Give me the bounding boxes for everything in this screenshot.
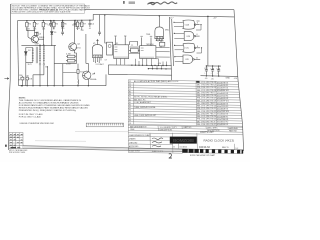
svg-text:4.7M: 4.7M [66, 53, 71, 55]
node: scale checker bar [182, 149, 243, 154]
svg-text:94310-62: 94310-62 [199, 145, 211, 149]
vacuum tube V2 [155, 16, 164, 42]
IC U1 [114, 36, 129, 65]
wire: mid rail lower y74.4 [108, 73, 171, 76]
svg-text:TUBE, DISPLAY DIGITAL: TUBE, DISPLAY DIGITAL [134, 106, 156, 109]
svg-text:1 KEY, ALARM SET: 1 KEY, ALARM SET [134, 101, 152, 104]
capacitor C22 [217, 66, 220, 76]
svg-text:DS1: DS1 [25, 75, 29, 77]
node: component value labels [19, 17, 238, 81]
node: parts list table [128, 80, 242, 153]
svg-text:2N711: 2N711 [76, 48, 81, 50]
IC U2 [140, 36, 156, 65]
svg-text:AS COMPLETE ACTION THAT (MELD): AS COMPLETE ACTION THAT (MELD) ASSY LOCK [134, 80, 179, 83]
node: measuring ruler strip [86, 123, 123, 127]
svg-text:LINE CORD W/PLUG 6FT: LINE CORD W/PLUG 6FT [134, 115, 157, 117]
wire: Q1 collector to node [28, 30, 36, 39]
node: signature scribbles [152, 138, 163, 147]
node: handwritten note smudge top [148, 2, 178, 5]
wire: left frame border [9, 4, 11, 150]
svg-text:C9: C9 [105, 60, 107, 62]
node: revision table bottom-left [9, 133, 23, 149]
resistor R8 [66, 55, 76, 58]
wire: horizontal rail y45.3 [21, 44, 56, 46]
svg-text:PART NO: PART NO [229, 129, 237, 132]
node: junction dots bottom bus [21, 22, 220, 87]
crystal Y1 [129, 47, 140, 52]
wire: bottom bus [19, 85, 106, 87]
wire: riser from bottom bus [105, 74, 107, 85]
svg-text:REL 1786 1PR 77B 27: REL 1786 1PR 77B 27 [197, 124, 216, 126]
capacitor C19 [160, 40, 165, 47]
svg-text:TMS: TMS [146, 34, 151, 36]
wire: IC interlink lower [129, 53, 140, 55]
node: drawing title text [204, 139, 235, 143]
svg-text:GND: GND [226, 77, 231, 79]
relay K1 [107, 42, 113, 55]
svg-text:220: 220 [61, 28, 64, 30]
wire: vertical x47.7 [47, 66, 49, 86]
wire: upper top rail [85, 9, 235, 11]
node: text under checker bar [190, 154, 215, 157]
node: V2 pin dots [156, 40, 162, 41]
gate G4 [175, 55, 200, 64]
svg-text:PART NO: PART NO [184, 126, 192, 129]
svg-text:2N404: 2N404 [39, 37, 44, 39]
capacitor C1 [49, 21, 52, 27]
wire: rail y68.6 [148, 68, 171, 70]
resistor R3 [42, 21, 44, 31]
wire: mid rail left riser [107, 65, 109, 75]
node: text above tick strip [20, 123, 54, 125]
node: junction dots top bus [26, 14, 209, 46]
wire: bypass top rail [206, 65, 221, 67]
svg-text:BOMZOBI: BOMZOBI [173, 138, 195, 144]
wire: sub rail linking R1 R2 [27, 29, 35, 31]
wire: Q3 emitter to bus [87, 80, 89, 86]
wire: mid vertical x54 [53, 45, 55, 85]
svg-text:CHECKED: CHECKED [129, 142, 138, 144]
capacitor C2 [74, 20, 77, 27]
node: T1 top link [40, 44, 44, 47]
wire: faint fold line A [75, 131, 128, 133]
svg-text:C19: C19 [160, 41, 163, 43]
node: title block approval table [128, 133, 243, 153]
wire: faint fold line B [35, 140, 86, 142]
wire: V1 pin drops [94, 61, 99, 64]
svg-text:PRESENTED IN EQ. FREQUENCY RAT: PRESENTED IN EQ. FREQUENCY RATING R 75-8… [19, 109, 77, 112]
resistor R9 [66, 59, 76, 62]
wire: rail y63.6 [54, 63, 76, 65]
gate G2 [174, 32, 199, 41]
resistor R6 [76, 20, 78, 30]
wire: Q2 collector up [73, 20, 75, 42]
transistor Q2 [69, 43, 77, 51]
transistor Q3 [83, 71, 91, 80]
wire: U1 side link [105, 15, 107, 43]
svg-text:DRAWN: DRAWN [129, 138, 136, 141]
node: gate output dots [200, 24, 202, 48]
wire: lower top rail (+5V feed) [93, 14, 234, 17]
node: header ink blob [196, 81, 199, 83]
svg-text:ITEM: ITEM [130, 129, 135, 131]
node: revision table entries [10, 134, 23, 148]
wire: IC pin drops row [136, 59, 167, 66]
capacitor C5 [61, 31, 64, 35]
node A [94, 72, 96, 75]
wire: mid rail upper y65 [108, 64, 171, 67]
svg-text:PARTS LIST: PARTS LIST [200, 131, 214, 134]
svg-text:TMS3450: TMS3450 [146, 44, 154, 46]
svg-text:UNLESS OTHERWISE SPECIFIED DIM: UNLESS OTHERWISE SPECIFIED DIM [20, 123, 54, 125]
resistor R4 [53, 21, 55, 30]
svg-text:FOR J4 ONLY C1-A30: FOR J4 ONLY C1-A30 [19, 115, 42, 118]
svg-text:GRAIN/DIMENSION CHART: GRAIN/DIMENSION CHART [129, 134, 151, 137]
diode D1 [51, 21, 54, 46]
node: margin mark left [5, 145, 7, 147]
resistor R1 [26, 21, 28, 31]
svg-text:RADIO CLOCK (4X13): RADIO CLOCK (4X13) [204, 139, 235, 143]
wire: long vertical x85.9 [85, 34, 87, 63]
capacitor C18 [89, 20, 92, 27]
gate G3 [175, 43, 200, 52]
capacitor C21 [211, 66, 214, 76]
svg-text:K1: K1 [116, 43, 118, 45]
node: company logo black stamp [170, 137, 197, 144]
wire: right frame border [234, 10, 244, 151]
wire: main top bus [17, 19, 93, 22]
transistor Q1 [31, 36, 38, 43]
svg-text:Y1: Y1 [131, 45, 133, 47]
resistor R11 [21, 76, 24, 86]
svg-text:2.2M: 2.2M [66, 64, 71, 66]
node: small ink mark top [123, 1, 135, 4]
wire: V2 links to divider [156, 48, 170, 58]
svg-text:V1 12AU7: V1 12AU7 [96, 63, 104, 66]
resistor R10 [77, 64, 79, 80]
wire: Q1 right link [38, 38, 43, 40]
node: parts list header rows [128, 125, 242, 135]
svg-text:R30: R30 [19, 75, 22, 77]
svg-text:FORM 1146 REV C DWG 64310-62: FORM 1146 REV C DWG 64310-62 SH 1 CODE I… [12, 11, 71, 14]
wire: link Q2 emitter [74, 51, 76, 64]
wire: riser joining lower rail [92, 14, 94, 20]
wire: section divider [169, 17, 171, 80]
wire: U1-U2 link box [130, 42, 138, 46]
svg-text:Q1: Q1 [129, 123, 131, 125]
svg-text:P/N 34 DCB C1-430: P/N 34 DCB C1-430 [9, 152, 25, 154]
diode D2 [25, 48, 33, 86]
svg-text:1/1 04310: 1/1 04310 [180, 147, 188, 149]
wire: mid vertical x62.8 [62, 21, 64, 86]
wire: gates input bus [172, 19, 174, 66]
wire: Q3 collector [86, 63, 89, 71]
node: NOTES block [19, 97, 90, 118]
resistor R5 [61, 21, 63, 32]
capacitor C3 [34, 30, 38, 35]
svg-text:REV D: REV D [222, 147, 229, 149]
wire: vertical node line x43.5 [42, 31, 44, 46]
node: fold ruler tick strip [23, 146, 183, 152]
lamp DS1 [26, 77, 29, 86]
wire: +5V bus vertical [207, 16, 209, 66]
gate G1 [174, 20, 200, 29]
svg-text:6504694 K3: 6504694 K3 [217, 124, 229, 126]
capacitor C6 [98, 15, 101, 36]
svg-text:NO PD, NO MC, HOLD RELAY & MIS: NO PD, NO MC, HOLD RELAY & MISC [134, 96, 168, 99]
node: top-left title text box [11, 4, 91, 14]
transformer T1 [32, 45, 45, 86]
resistor R7 [81, 20, 83, 30]
wire: rail jogs [153, 65, 162, 69]
svg-text:.01: .01 [89, 28, 92, 30]
inductor L1 [77, 80, 80, 86]
node: drawing number row [199, 145, 229, 149]
node: margin arrow left [4, 78, 8, 80]
node: tiny text under revision table [9, 149, 27, 154]
vacuum tube V1 [92, 40, 102, 61]
svg-text:2N404A: 2N404A [90, 78, 97, 81]
wire: link rail y72.6 [63, 72, 77, 74]
capacitor C20 [205, 66, 208, 76]
wire: bus left drop to bottom bus [17, 21, 18, 86]
resistor R2 [33, 21, 35, 31]
node: extra value labels [19, 23, 191, 81]
svg-text:APPROVED: APPROVED [129, 145, 139, 148]
node: handwritten sheet number 2 [169, 154, 172, 159]
wire: bypass bottom (GND) rail [201, 75, 239, 78]
wire: gate output chain links [196, 25, 202, 53]
svg-text:DESCRIPTION: DESCRIPTION [160, 129, 173, 131]
